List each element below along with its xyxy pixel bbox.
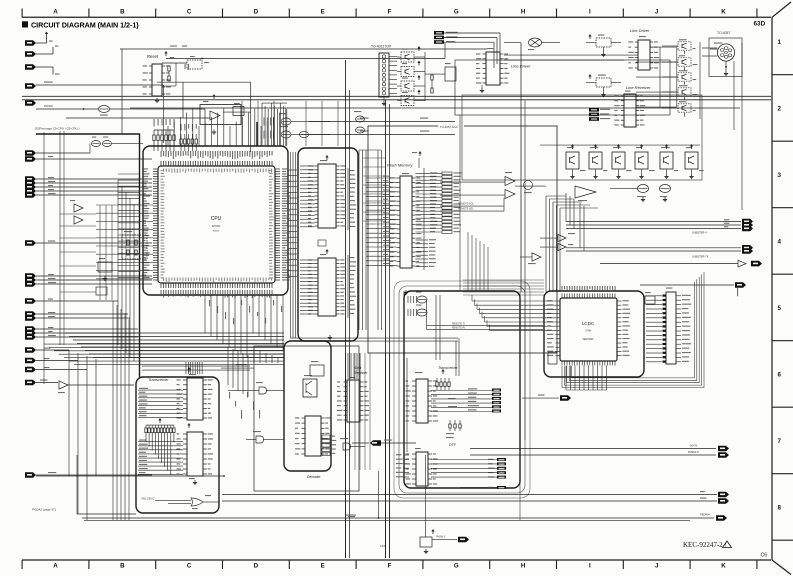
svg-text:Decoder: Decoder xyxy=(307,475,321,479)
svg-text:REMOTE-VOL: REMOTE-VOL xyxy=(458,203,474,206)
svg-text:H: H xyxy=(521,563,526,570)
svg-text:Line Driver: Line Driver xyxy=(511,64,531,69)
svg-text:DTF: DTF xyxy=(449,443,457,447)
svg-text:3: 3 xyxy=(778,172,782,179)
svg-text:Transceiver: Transceiver xyxy=(148,377,169,382)
svg-text:A: A xyxy=(53,9,58,16)
svg-text:5: 5 xyxy=(778,305,782,312)
svg-text:I: I xyxy=(589,563,591,570)
svg-text:B: B xyxy=(120,9,125,16)
svg-text:DSP/storage C9-CPU / C9-CPU ): DSP/storage C9-CPU / C9-CPU ) xyxy=(35,127,80,131)
svg-text:K: K xyxy=(721,9,726,16)
svg-text:D: D xyxy=(254,563,259,570)
svg-text:CIRCUIT DIAGRAM (MAIN 1/2-1): CIRCUIT DIAGRAM (MAIN 1/2-1) xyxy=(31,20,139,29)
svg-text:J: J xyxy=(655,563,659,570)
svg-text:8: 8 xyxy=(778,505,782,512)
svg-text:Flash Memory: Flash Memory xyxy=(387,163,413,168)
svg-text:J: J xyxy=(655,9,659,16)
svg-text:PEDRW: PEDRW xyxy=(700,513,710,517)
svg-text:H: H xyxy=(521,9,526,16)
svg-text:SUBSTER-4: SUBSTER-4 xyxy=(692,231,707,235)
svg-text:4: 4 xyxy=(778,239,782,246)
svg-text:PGDA2 (page 57): PGDA2 (page 57) xyxy=(32,508,56,512)
svg-text:REMOTE-TI: REMOTE-TI xyxy=(452,323,465,325)
svg-text:63D: 63D xyxy=(754,21,766,28)
svg-text:C6: C6 xyxy=(761,553,768,559)
svg-text:REMOTE-SEL: REMOTE-SEL xyxy=(458,208,474,211)
svg-text:PMSW-S: PMSW-S xyxy=(436,537,446,539)
svg-text:TO-4021TOP: TO-4021TOP xyxy=(371,45,392,49)
svg-text:IM7094: IM7094 xyxy=(212,225,221,228)
svg-text:!: ! xyxy=(725,543,726,548)
svg-text:KEC-92247-2: KEC-92247-2 xyxy=(683,541,723,549)
svg-text:7: 7 xyxy=(778,438,782,445)
svg-text:Transceiver: Transceiver xyxy=(438,366,458,370)
svg-text:TO-4057-GLA: TO-4057-GLA xyxy=(440,125,458,129)
svg-text:C: C xyxy=(187,563,192,570)
svg-text:K: K xyxy=(721,563,726,570)
svg-text:TO-4057: TO-4057 xyxy=(717,31,730,35)
svg-text:SUBSTER-TX: SUBSTER-TX xyxy=(692,255,709,259)
svg-text:Register: Register xyxy=(354,371,368,375)
svg-text:PEDRW: PEDRW xyxy=(44,105,54,108)
svg-text:OWL-15DAC: OWL-15DAC xyxy=(141,498,155,501)
svg-text:6: 6 xyxy=(778,372,782,379)
svg-text:B: B xyxy=(120,563,125,570)
svg-text:Reset: Reset xyxy=(147,54,159,59)
svg-text:E: E xyxy=(321,9,325,16)
svg-text:C: C xyxy=(187,9,192,16)
svg-text:PMSDF-H: PMSDF-H xyxy=(688,451,699,454)
svg-text:CPU: CPU xyxy=(211,216,222,222)
svg-text:Line Driver: Line Driver xyxy=(630,28,650,33)
svg-text:REMOTE-RI: REMOTE-RI xyxy=(452,327,465,329)
svg-text:G: G xyxy=(454,9,459,16)
svg-text:E: E xyxy=(321,563,325,570)
svg-text:D: D xyxy=(254,9,259,16)
svg-text:A: A xyxy=(53,563,58,570)
svg-text:E0001: E0001 xyxy=(213,231,220,233)
svg-text:F: F xyxy=(388,9,392,16)
svg-text:37H8: 37H8 xyxy=(585,331,591,333)
svg-text:G: G xyxy=(454,563,459,570)
svg-text:1: 1 xyxy=(778,39,782,46)
svg-text:SED1560F: SED1560F xyxy=(582,339,594,341)
svg-text:2: 2 xyxy=(778,106,782,113)
svg-text:HD-TA: HD-TA xyxy=(690,445,698,448)
svg-text:C34: C34 xyxy=(380,544,385,548)
svg-text:Line Receiver: Line Receiver xyxy=(626,85,651,90)
svg-text:LCDC: LCDC xyxy=(582,321,595,326)
svg-text:I: I xyxy=(589,9,591,16)
svg-text:F: F xyxy=(388,563,392,570)
